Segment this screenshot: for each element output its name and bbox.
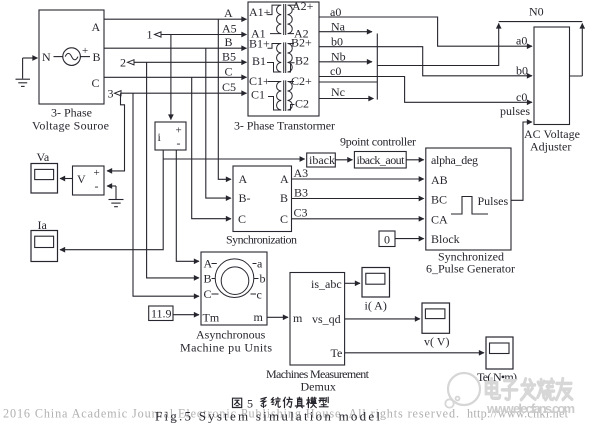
svg-text:b0: b0 (516, 64, 528, 78)
wire b0 to AC voltage adjuster (319, 47, 532, 76)
svg-text:Adjuster: Adjuster (530, 140, 571, 154)
svg-text:Block: Block (431, 232, 460, 246)
branch B down to Synchronization B- (206, 48, 231, 198)
figure caption CJK: 图 5 系统仿真模型 (drawn as paths) (233, 397, 329, 408)
svg-text:Machine pu Units: Machine pu Units (180, 341, 272, 355)
svg-text:A: A (92, 20, 101, 34)
svg-text:C2+: C2+ (291, 74, 312, 88)
svg-text:m: m (254, 310, 264, 324)
AC voltage adjuster block (534, 27, 570, 125)
branch C down to Synchronization C (192, 77, 231, 218)
svg-text:BC: BC (431, 193, 447, 207)
svg-text:vs_qd: vs_qd (312, 312, 341, 326)
wire 11.9 to Tm (173, 314, 199, 316)
svg-text:A1+: A1+ (249, 5, 271, 19)
branch A5 down to current meter i (170, 35, 172, 120)
svg-text:B1+: B1+ (249, 37, 270, 51)
svg-text:3- Phase: 3- Phase (51, 106, 92, 120)
wire sync B3 out to pulse generator BC (292, 198, 424, 200)
watermark logo circle (445, 373, 480, 408)
Va scope (31, 164, 58, 194)
lead circle to B (80, 56, 90, 58)
svg-text:+: + (94, 167, 100, 179)
svg-text:3: 3 (108, 87, 114, 101)
svg-text:C5: C5 (222, 80, 236, 94)
svg-text:A: A (224, 6, 233, 20)
svg-text:Asynchronous: Asynchronous (196, 328, 266, 342)
svg-text:c0: c0 (330, 64, 341, 78)
watermark calligraphy 电子发烧友 (486, 379, 572, 400)
svg-text:a: a (257, 257, 263, 271)
char 统 (272, 397, 281, 407)
svg-text:alpha_deg: alpha_deg (431, 153, 478, 167)
svg-text:Synchronization: Synchronization (226, 233, 297, 247)
char 烧 (538, 379, 554, 400)
wire machine m to demux (267, 316, 288, 318)
svg-text:C: C (238, 212, 246, 226)
char 系 (261, 397, 266, 407)
wire B (104, 47, 247, 49)
char 真 (295, 397, 304, 408)
synchronized 6 pulse generator block (426, 148, 511, 250)
secondary wire labels (330, 5, 544, 100)
svg-text:C: C (225, 65, 233, 79)
char 发 (521, 379, 535, 400)
svg-text:iback: iback (309, 153, 335, 167)
svg-text:B5: B5 (222, 50, 236, 64)
scope Te(N*m) (486, 337, 513, 369)
voltmeter block V (73, 166, 105, 195)
wire is_abc to scope i(A) (345, 282, 360, 284)
svg-text:3- Phase Transtormer: 3- Phase Transtormer (234, 119, 335, 133)
svg-text:C1: C1 (251, 88, 265, 102)
branch C5 down to machine C (133, 93, 199, 296)
wire C (104, 76, 247, 78)
svg-text:B: B (225, 35, 233, 49)
svg-text:V: V (77, 172, 86, 186)
svg-text:N: N (42, 50, 51, 64)
wire Nc into neutral junction (319, 82, 377, 99)
svg-text:B: B (280, 191, 288, 205)
wire a0 to AC voltage adjuster (319, 17, 532, 46)
wire iback_aout to alpha_deg (406, 159, 424, 161)
wire B5 from tag2 (134, 61, 247, 63)
svg-text:iback_aout: iback_aout (357, 153, 406, 167)
branch A down to Synchronization A (218, 19, 231, 179)
svg-text:c0: c0 (516, 90, 527, 104)
wire sync C3 out to pulse generator CA (292, 218, 424, 220)
svg-text:B: B (93, 50, 101, 64)
svg-text:B2: B2 (295, 54, 309, 68)
wire i block out down to machine A (176, 150, 199, 261)
3-phase voltage source block outline (39, 10, 104, 104)
transformer port labels (249, 0, 314, 111)
svg-text:B3: B3 (294, 186, 308, 200)
scope i(A) (362, 268, 390, 298)
wire Nb into neutral junction (319, 61, 372, 63)
3-phase transformer block (248, 2, 319, 116)
constant 11.9 block (149, 306, 173, 321)
svg-text:6_Pulse Generator: 6_Pulse Generator (426, 262, 515, 276)
svg-text:Pulses: Pulses (478, 194, 509, 208)
svg-text:Demux: Demux (301, 380, 336, 394)
vertical branch wires going down (107, 19, 231, 296)
wire ground to source N input (23, 57, 38, 59)
svg-text:A2+: A2+ (292, 0, 314, 13)
svg-text:B2+: B2+ (291, 36, 312, 50)
lead N to circle (54, 56, 63, 58)
svg-text:-: - (177, 136, 181, 150)
iback_aout block (354, 152, 406, 169)
current measurement block i (155, 122, 186, 150)
svg-text:a0: a0 (516, 34, 527, 48)
synchronization block (233, 166, 292, 232)
machine stub leads (212, 264, 259, 295)
svg-text:Ia: Ia (38, 218, 48, 232)
wire vs_qd to scope v(V) (345, 318, 420, 320)
ground below voltmeter (109, 186, 124, 207)
wire i measurement to iback (163, 158, 305, 160)
svg-text:v( V): v( V) (424, 335, 449, 349)
svg-text:11.9: 11.9 (151, 307, 172, 321)
wire labels A A5 B B5 C C5 (222, 6, 237, 94)
svg-text:2: 2 (120, 56, 126, 70)
wire pulses out up to adjuster (511, 122, 532, 200)
svg-text:B1: B1 (252, 54, 266, 68)
wire 0 to Block input (395, 238, 424, 240)
phase wires A,B,C source to transformer (104, 19, 247, 93)
svg-text:+: + (176, 125, 182, 137)
char 模 (307, 397, 317, 408)
wire N0 down to adjuster right side (570, 24, 583, 77)
scope v(V) (422, 303, 450, 333)
svg-text:Nb: Nb (331, 50, 346, 64)
transformer winding pair B (267, 42, 295, 73)
char 仿 (283, 397, 292, 407)
svg-text:Tm: Tm (203, 311, 220, 325)
svg-text:-: - (95, 179, 99, 193)
Ia scope (31, 231, 58, 262)
svg-text:C: C (204, 287, 212, 301)
N0 top wire (499, 21, 583, 23)
svg-text:c: c (257, 288, 262, 302)
svg-text:Te: Te (331, 346, 343, 360)
svg-text:b0: b0 (331, 35, 343, 49)
voltage source labels (32, 20, 109, 133)
svg-text:a0: a0 (330, 5, 341, 19)
transformer winding pair C (268, 80, 295, 111)
svg-text:is_abc: is_abc (311, 277, 342, 291)
wire c0 to AC voltage adjuster (319, 77, 532, 103)
neutral junction vertical (376, 34, 378, 100)
svg-text:Na: Na (331, 20, 346, 34)
wire sync A3 out to pulse generator AB (292, 178, 424, 180)
asynchronous machine block (201, 252, 267, 325)
svg-text:A: A (239, 172, 248, 186)
wire neutral junction to N0 line (377, 24, 498, 67)
wire iback to iback_aout (335, 159, 352, 161)
char 子 (502, 381, 517, 400)
svg-text:Voltage Souroe: Voltage Souroe (32, 119, 109, 133)
svg-text:i( A): i( A) (365, 299, 387, 313)
svg-text:Nc: Nc (331, 85, 345, 99)
constant 0 block (379, 231, 395, 247)
svg-text:C2: C2 (295, 97, 309, 111)
branch B5 down to machine B (147, 62, 199, 278)
svg-text:A5: A5 (222, 22, 237, 36)
wire V minus to ground (107, 185, 116, 187)
wire V output to Va scope (60, 178, 73, 180)
char 图 (233, 398, 242, 407)
svg-text:www.elecfans.com: www.elecfans.com (486, 401, 575, 416)
sine source circle inside voltage source (63, 48, 81, 66)
svg-text:C: C (92, 76, 100, 90)
svg-text:Va: Va (37, 150, 50, 164)
char 友 (556, 379, 572, 400)
svg-text:AB: AB (431, 173, 448, 187)
svg-text:m: m (293, 311, 303, 325)
wire i measurement down, branch to Ia scope (60, 150, 163, 250)
char 型 (319, 397, 328, 407)
char 电 (486, 379, 500, 399)
svg-text:N0: N0 (529, 5, 544, 19)
wire Na into neutral junction (319, 31, 372, 33)
machine stator circle (215, 259, 254, 298)
svg-text:C: C (280, 212, 288, 226)
svg-text:pulses: pulses (500, 104, 530, 118)
wire A5 from tag1 (161, 34, 247, 36)
wire Te to scope Te(N*m) (345, 352, 484, 354)
transformer winding pair A (268, 4, 297, 35)
branch C5 down to voltmeter + (107, 93, 125, 171)
svg-text:C3: C3 (294, 206, 308, 220)
svg-text:C1+: C1+ (249, 74, 270, 88)
svg-text:b: b (260, 272, 266, 286)
transformer secondary output wires (319, 17, 582, 102)
ground (left of source) (22, 58, 24, 79)
wire C5 from tag3 (121, 92, 247, 94)
svg-text:B: B (204, 272, 212, 286)
machines measurement demux block (290, 273, 345, 366)
svg-text:CA: CA (431, 213, 448, 227)
iback block (307, 153, 336, 167)
machine rotor circle (221, 267, 249, 295)
svg-text:0: 0 (384, 233, 390, 247)
wire A (104, 18, 247, 20)
svg-text:A: A (204, 257, 213, 271)
svg-text:9point controller: 9point controller (340, 135, 416, 149)
svg-text:1: 1 (147, 28, 153, 42)
svg-text:A: A (280, 172, 289, 186)
svg-text:A3: A3 (294, 166, 309, 180)
svg-text:+: + (82, 45, 88, 57)
pulse waveform icon (451, 197, 488, 215)
svg-text:B-: B- (239, 191, 251, 205)
